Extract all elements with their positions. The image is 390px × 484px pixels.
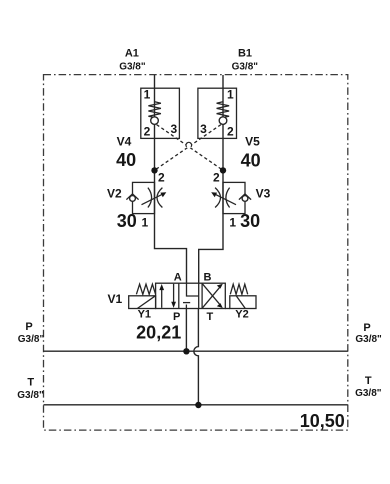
svg-text:10,50: 10,50 bbox=[300, 411, 345, 431]
svg-text:1: 1 bbox=[141, 216, 148, 230]
svg-text:1: 1 bbox=[227, 88, 234, 102]
svg-text:Y2: Y2 bbox=[235, 309, 248, 321]
svg-text:V4: V4 bbox=[117, 134, 132, 148]
svg-text:2: 2 bbox=[227, 125, 234, 139]
svg-text:40: 40 bbox=[241, 151, 261, 171]
svg-text:T: T bbox=[207, 311, 214, 323]
svg-text:B1: B1 bbox=[238, 48, 252, 60]
svg-text:1: 1 bbox=[229, 216, 236, 230]
svg-text:G3/8": G3/8" bbox=[355, 334, 382, 345]
svg-text:V1: V1 bbox=[107, 292, 122, 306]
svg-text:A: A bbox=[174, 272, 182, 284]
svg-text:G3/8": G3/8" bbox=[355, 388, 382, 399]
svg-text:2: 2 bbox=[213, 170, 220, 184]
svg-text:G3/8": G3/8" bbox=[232, 61, 259, 72]
svg-text:30: 30 bbox=[240, 211, 260, 231]
svg-text:V2: V2 bbox=[107, 187, 122, 201]
svg-text:P: P bbox=[363, 322, 370, 334]
svg-text:A1: A1 bbox=[125, 48, 139, 60]
svg-text:G3/8": G3/8" bbox=[119, 61, 146, 72]
svg-text:2: 2 bbox=[158, 170, 165, 184]
svg-text:30: 30 bbox=[117, 211, 137, 231]
svg-text:G3/8": G3/8" bbox=[18, 334, 45, 345]
svg-text:B: B bbox=[204, 272, 212, 284]
svg-text:T: T bbox=[27, 376, 34, 388]
svg-text:2: 2 bbox=[144, 125, 151, 139]
svg-text:T: T bbox=[365, 375, 372, 387]
svg-text:3: 3 bbox=[171, 122, 178, 136]
svg-text:20,21: 20,21 bbox=[136, 323, 181, 343]
svg-text:40: 40 bbox=[116, 150, 136, 170]
svg-text:V5: V5 bbox=[245, 134, 260, 148]
svg-text:P: P bbox=[25, 321, 32, 333]
svg-text:G3/8": G3/8" bbox=[17, 390, 44, 401]
svg-text:3: 3 bbox=[200, 122, 207, 136]
svg-text:P: P bbox=[173, 311, 180, 323]
svg-text:1: 1 bbox=[144, 88, 151, 102]
svg-text:Y1: Y1 bbox=[138, 308, 151, 320]
svg-text:V3: V3 bbox=[256, 187, 271, 201]
